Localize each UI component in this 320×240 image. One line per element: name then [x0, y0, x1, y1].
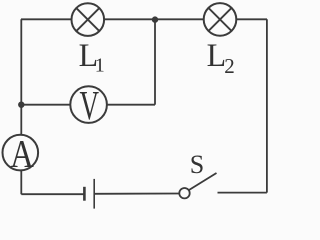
label L2 [207, 38, 235, 78]
wire voltmeter branch [21, 104, 155, 106]
svg-text:L: L [207, 38, 227, 74]
switch S [179, 173, 216, 198]
voltmeter V [70, 82, 107, 128]
node junction top [152, 16, 158, 22]
wire bottom middle [94, 193, 179, 195]
lamp L2 [204, 3, 237, 36]
svg-text:S: S [190, 150, 204, 179]
label L1 [79, 38, 105, 77]
wire right [266, 19, 268, 192]
wire bottom right [218, 192, 267, 194]
wire top [21, 18, 267, 20]
svg-text:2: 2 [224, 54, 235, 78]
battery [84, 179, 94, 209]
ammeter A [3, 132, 39, 176]
svg-text:V: V [79, 82, 99, 128]
node junction left [18, 102, 24, 108]
svg-text:1: 1 [95, 55, 105, 77]
wire junction drop [154, 19, 156, 104]
wire left [20, 19, 22, 194]
svg-text:A: A [10, 132, 34, 176]
lamp L1 [72, 3, 105, 36]
wire bottom left [21, 193, 84, 195]
